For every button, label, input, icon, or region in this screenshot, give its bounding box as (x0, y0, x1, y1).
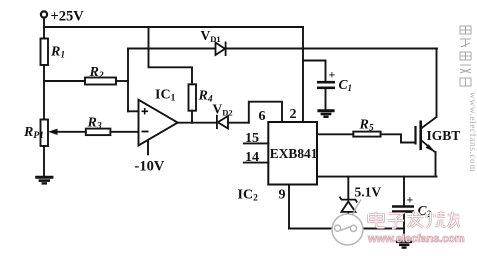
label +25V (51, 9, 85, 25)
resistor R4 (189, 84, 197, 110)
label 5.1V (355, 185, 382, 200)
svg-text:14: 14 (245, 150, 259, 165)
label R1 (50, 45, 65, 61)
wire VD1 line (128, 48, 437, 50)
svg-text:EXB841: EXB841 (270, 146, 318, 161)
watermark hanzi 电 (vector) (369, 212, 385, 228)
resistor R2 (85, 78, 116, 85)
label VD2 (213, 102, 233, 118)
svg-text:+: + (329, 68, 336, 82)
ground under RP1 (35, 177, 53, 183)
ground under C2 (396, 242, 412, 248)
svg-text:+: + (407, 193, 414, 207)
wire R5 to IGBT gate (381, 134, 415, 142)
wire C2 bottom (403, 213, 405, 241)
label IGBT (427, 128, 461, 143)
resistor R5 (353, 132, 380, 137)
label RP1 (23, 125, 44, 141)
watermark hanzi 发 (vector) (408, 212, 424, 228)
diode VD2 (217, 115, 228, 129)
svg-text:www.elecfans.com: www.elecfans.com (467, 92, 476, 172)
watermark hanzi 烧 (vector) (427, 211, 446, 228)
label C1 plus (329, 68, 336, 82)
label pin 15 (245, 131, 259, 146)
label R5 (359, 118, 374, 134)
wire VD2 to staple (228, 122, 249, 124)
label pin 2 (290, 107, 297, 122)
pin 14 stub (244, 162, 268, 164)
label C1 (339, 77, 353, 93)
label R3 (87, 116, 102, 132)
capacitor C2 (392, 207, 414, 212)
negative supply stub (147, 140, 149, 155)
label pin 6 (259, 109, 266, 124)
label C2 plus (407, 193, 414, 207)
watermark logo circle (332, 200, 363, 246)
wire R2 to plus-input vertical (116, 80, 128, 82)
svg-text:15: 15 (245, 131, 259, 146)
wire emitter rail (317, 176, 437, 178)
wire R5 left (317, 133, 353, 135)
svg-text:6: 6 (259, 109, 266, 124)
wire C1 branch (303, 61, 326, 82)
resistor R3 (86, 129, 111, 136)
label IC1 (155, 88, 176, 104)
pin 15 stub (244, 142, 268, 144)
wire op-amp output (178, 122, 216, 124)
wire staple to pin 6 (249, 102, 282, 123)
wire pin 9 drop (288, 185, 290, 229)
IC2 EXB841 box (268, 122, 317, 185)
wire R2 left (44, 80, 85, 82)
wire RP1 to ground (43, 146, 45, 177)
resistor R1 (41, 39, 49, 66)
wire R3 to minus input (110, 131, 138, 133)
svg-text:2: 2 (290, 107, 297, 122)
potentiometer wiper arrow (48, 129, 58, 135)
zener diode 5.1V (340, 197, 358, 212)
label pin 9 (279, 188, 286, 203)
wire plus-input vertical and VD1 branch (127, 49, 129, 112)
wire pin 2 drop from rail (302, 27, 304, 122)
label pin 14 (245, 150, 259, 165)
ground under C1 (317, 111, 334, 117)
wire R3 left with wiper arrow (56, 131, 86, 133)
watermark gray vertical column (456, 24, 476, 254)
wire R4 pullup from rail (149, 27, 193, 84)
wire plus input horizontal (128, 110, 139, 112)
svg-text:5.1V: 5.1V (355, 185, 382, 200)
diode VD1 (216, 42, 226, 57)
watermark hanzi 友 (vector) (448, 212, 460, 229)
potentiometer RP1 (41, 120, 49, 147)
watermark hanzi 子 (vector) (388, 214, 405, 229)
wire C2 top (403, 177, 405, 206)
wire C1 to ground (325, 89, 327, 110)
capacitor C1 (317, 82, 335, 88)
wire zener top (347, 177, 349, 200)
IGBT Q1 (416, 117, 437, 153)
wire +25V rail (44, 26, 303, 28)
wire zener bottom (347, 212, 349, 229)
gray mini hanzi marks (460, 26, 471, 86)
svg-text:9: 9 (279, 188, 286, 203)
watermark red url www.elecfans.com (368, 233, 465, 245)
label C2 (418, 203, 432, 219)
label -10V (135, 159, 165, 175)
wire IGBT emitter down (435, 152, 437, 177)
wire R1 to RP1 (43, 65, 45, 120)
node +25V terminal (41, 11, 47, 17)
label IC2 (238, 188, 259, 204)
wire IGBT collector to VD1 line (436, 49, 438, 118)
label R2 (89, 65, 104, 81)
wire terminal to R1 (43, 18, 45, 39)
svg-text:+25V: +25V (51, 9, 85, 25)
label R4 (198, 89, 213, 105)
op-amp IC1 (139, 100, 178, 156)
svg-text:-10V: -10V (135, 159, 165, 175)
wire R4 to output (191, 111, 193, 123)
label VD1 (201, 28, 221, 44)
wire bottom rail (289, 228, 404, 230)
label EXB841 (270, 146, 318, 161)
